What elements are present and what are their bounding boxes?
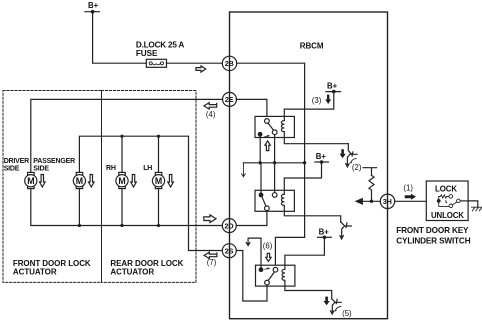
svg-text:(2): (2): [352, 163, 362, 172]
fuse D.LOCK 25A: [136, 41, 185, 68]
flow arrow (lock) right, near 2B: [196, 66, 206, 72]
transistor Q1 (2): [346, 144, 357, 167]
power B+ (mid) terminal: [315, 152, 329, 164]
arrow lock direction M3: [131, 175, 137, 188]
svg-text:UNLOCK: UNLOCK: [431, 211, 464, 220]
current arrow down at Q1: [340, 149, 346, 158]
wire (2) to pull-up resistor: [363, 168, 377, 176]
motor M2 passenger side: [73, 172, 85, 188]
connector 2S: [222, 244, 236, 258]
front door key cylinder switch box: [426, 181, 468, 221]
key switch common contact: [437, 199, 441, 203]
resistor R1: [369, 175, 374, 199]
relay K3 (front unlock relay): [256, 265, 295, 286]
wire K3 moving contact to CPU stub: [246, 238, 261, 267]
svg-text:LOCK: LOCK: [435, 184, 457, 193]
flow arrow (unlock) left near 2S: [204, 252, 217, 258]
wire 3H to key cylinder switch: [395, 200, 427, 202]
RBCM box: [230, 12, 388, 319]
flow arrow (lock) right, near 2D: [204, 215, 216, 223]
key switch lock path with resistor squiggle: [439, 195, 449, 201]
current arrow down at Q3: [324, 297, 330, 306]
svg-text:ACTUATOR: ACTUATOR: [13, 268, 57, 277]
relay K1 coil with B+ (3) feed and output to transistor Q1: [281, 93, 348, 144]
node junction on B+ rail: [303, 161, 306, 164]
svg-text:RBCM: RBCM: [300, 42, 324, 51]
svg-text:FUSE: FUSE: [136, 49, 158, 58]
svg-text:(1): (1): [403, 183, 413, 192]
power B+ top terminal: [85, 1, 100, 13]
power B+ (3) terminal: [326, 82, 341, 94]
svg-text:(4): (4): [206, 110, 216, 119]
wire lower bus: motor returns to connector 2D: [31, 189, 223, 226]
svg-text:M: M: [27, 176, 34, 186]
svg-text:2D: 2D: [225, 221, 234, 230]
wire B+ to fuse: [93, 13, 147, 64]
arrow lock direction M4: [168, 175, 174, 188]
relay K1 (lock relay): [255, 116, 294, 137]
svg-text:2S: 2S: [225, 246, 234, 255]
signal rail from CPU to B+ rail: [243, 162, 304, 164]
svg-text:B+: B+: [327, 82, 338, 91]
svg-text:2E: 2E: [225, 95, 234, 104]
arrow up (unlock flow) under K1: [265, 141, 270, 151]
svg-text:B+: B+: [319, 228, 330, 237]
arrow lock direction M2: [89, 175, 95, 188]
connector 2D: [222, 219, 236, 233]
wire K1 moving contact down to signal rail: [259, 137, 261, 163]
svg-text:(7): (7): [207, 258, 217, 267]
svg-text:RH: RH: [106, 165, 116, 172]
dashed box front door lock actuator: [3, 91, 102, 283]
motor M4 LH: [152, 172, 164, 188]
svg-text:(6): (6): [263, 242, 273, 251]
power B+ (bottom) terminal: [318, 228, 332, 240]
svg-text:LH: LH: [143, 165, 152, 172]
relay K2 coil fed by B+ (mid), output to transistor Q2: [281, 164, 340, 223]
relay K3 coil fed by B+ (bottom), output to transistor Q3: [282, 239, 332, 299]
svg-text:PASSENGER: PASSENGER: [33, 158, 75, 165]
arrow lock direction M1: [40, 175, 46, 188]
svg-text:SIDE: SIDE: [4, 165, 20, 172]
wire 2B internal: B+ rail down to relay K3 top contact: [237, 63, 305, 267]
wire K2 top contact up to signal rail: [274, 163, 276, 193]
connector 2E: [223, 92, 237, 106]
wire fuse to connector 2B: [167, 62, 223, 64]
wire K1 lower contact down to signal rail: [274, 135, 276, 163]
key switch unlock path: [439, 201, 449, 207]
svg-text:B+: B+: [88, 1, 99, 10]
wire 2E internal to relay K1 top contact: [236, 99, 267, 118]
wire 2E to front motor (left): [31, 99, 223, 172]
svg-text:M: M: [155, 176, 162, 186]
svg-text:CYLINDER SWITCH: CYLINDER SWITCH: [396, 237, 470, 246]
svg-text:DRIVER: DRIVER: [4, 158, 29, 165]
flow arrow (unlock) left, near 2E: [204, 103, 217, 109]
relay K2 (unlock relay): [255, 190, 294, 211]
transistor Q3 (5): [331, 299, 342, 314]
dashed box rear door lock actuator: [102, 91, 197, 283]
svg-text:2B: 2B: [225, 59, 234, 68]
svg-text:B+: B+: [316, 152, 327, 161]
signal line 3H to CPU with arrow: [363, 200, 381, 202]
svg-text:(3): (3): [312, 96, 322, 105]
CPU stub arrow: [242, 163, 246, 177]
transistor Q2: [340, 222, 351, 239]
wire K2 moving contact up to signal rail: [260, 163, 262, 193]
svg-text:SIDE: SIDE: [33, 165, 49, 172]
motor M3 RH: [116, 172, 128, 188]
svg-text:M: M: [118, 176, 125, 186]
svg-text:3H: 3H: [383, 197, 392, 206]
svg-text:FRONT DOOR KEY: FRONT DOOR KEY: [396, 226, 469, 235]
svg-text:ACTUATOR: ACTUATOR: [110, 268, 154, 277]
motor M1 driver side: [25, 172, 37, 188]
svg-text:M: M: [76, 176, 83, 186]
wire connector 2S to relay K3 moving contact: [236, 251, 267, 302]
connector 2B: [222, 56, 236, 70]
wire rear bus top: motors RH LH to connector 2S: [79, 136, 222, 250]
connector 3H: [380, 194, 394, 208]
ground: [468, 201, 482, 211]
key switch blade and output contact: [452, 202, 456, 205]
svg-text:(5): (5): [342, 309, 352, 318]
wire relay K2 output to connector 2D: [236, 211, 267, 226]
